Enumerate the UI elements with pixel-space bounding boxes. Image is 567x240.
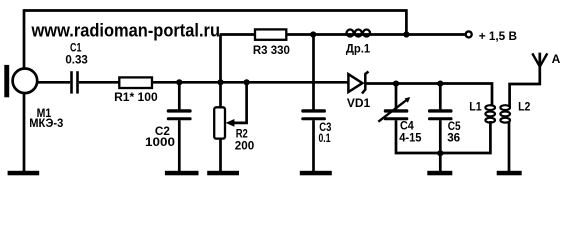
svg-text:1000: 1000 <box>145 135 175 149</box>
variable capacitor C4 arrow <box>378 100 406 122</box>
wire VD1 to L1 corner <box>365 84 492 107</box>
wire main line R1 to VD1 <box>152 81 348 84</box>
wire C2 bottom lead <box>178 120 181 171</box>
svg-text:200: 200 <box>235 139 255 153</box>
svg-text:+ 1,5 В: + 1,5 В <box>479 29 518 43</box>
wire mic bottom lead <box>23 94 26 172</box>
wire supply rail <box>221 35 465 36</box>
wire mic to C1 <box>37 81 71 84</box>
choke Dr.1 loops <box>347 30 354 37</box>
wire C1 to R1 <box>79 81 120 84</box>
capacitor C1 plates <box>70 71 73 93</box>
wire R2 wiper <box>233 82 247 123</box>
diode VD1 triangle <box>348 74 362 92</box>
node rail top drop <box>403 31 409 37</box>
svg-text:Др.1: Др.1 <box>346 42 371 56</box>
ground L2 <box>497 171 522 176</box>
svg-text:0.33: 0.33 <box>65 53 88 67</box>
svg-text:VD1: VD1 <box>347 96 371 110</box>
wire C3 bottom lead <box>312 120 315 171</box>
wire C4 top lead <box>395 84 398 110</box>
resistor R3 body <box>255 29 286 39</box>
svg-text:4-15: 4-15 <box>399 130 422 144</box>
node C5 ground <box>437 150 443 156</box>
node rail drop main <box>217 79 223 85</box>
svg-text:МКЭ-3: МКЭ-3 <box>29 116 63 130</box>
variable capacitor C4 plates <box>384 109 409 112</box>
wire antenna stem to L2 <box>510 53 540 107</box>
potentiometer R2 wiper arrow <box>226 119 235 127</box>
inductor L1 coils <box>485 105 495 110</box>
ground mic <box>8 171 40 176</box>
wire rail drop to main line and R2 <box>219 35 222 108</box>
ground C2 <box>165 171 199 176</box>
svg-text:R1* 100: R1* 100 <box>114 90 158 104</box>
wire top rail <box>24 9 406 12</box>
resistor R1 body <box>119 77 152 88</box>
capacitor C3 plates <box>301 109 326 112</box>
node C5 main <box>437 81 443 87</box>
svg-text:L1: L1 <box>469 100 482 114</box>
svg-text:36: 36 <box>447 131 460 145</box>
wire left drop to microphone <box>23 9 26 68</box>
ground R2 <box>207 171 239 176</box>
terminal +1.5V <box>466 31 472 37</box>
microphone M1 back plate <box>4 65 9 97</box>
wire C3 drop from rail through main line <box>312 35 315 110</box>
svg-text:0.1: 0.1 <box>319 131 331 145</box>
wire C5 top lead <box>439 84 442 110</box>
inductor L2 coils <box>500 105 510 110</box>
ground C4 C5 <box>427 171 452 176</box>
svg-text:L2: L2 <box>518 100 531 114</box>
node C2 main <box>176 79 182 85</box>
svg-text:A: A <box>552 52 561 66</box>
potentiometer R2 body <box>214 107 225 138</box>
svg-text:www.radioman-portal.ru: www.radioman-portal.ru <box>31 20 220 40</box>
wire R2 bottom lead <box>219 138 222 171</box>
wire right drop to supply rail <box>405 9 408 34</box>
ground C3 <box>300 171 332 176</box>
node R2 wiper main <box>244 79 250 85</box>
wire C5 bottom lead to ground <box>439 120 442 171</box>
node C4 main <box>393 81 399 87</box>
antenna <box>532 53 547 66</box>
wire L2 bottom lead <box>508 121 511 171</box>
capacitor C5 plates <box>428 109 453 112</box>
microphone M1 circle <box>13 69 38 94</box>
wire C2 top lead <box>178 82 181 109</box>
capacitor C2 plates <box>167 109 192 112</box>
svg-text:R3 330: R3 330 <box>253 43 290 57</box>
node rail R3 C3 <box>310 31 316 37</box>
diode VD1 cathode bar <box>362 72 369 94</box>
wire bottom rail C4 to L1 <box>396 120 490 153</box>
